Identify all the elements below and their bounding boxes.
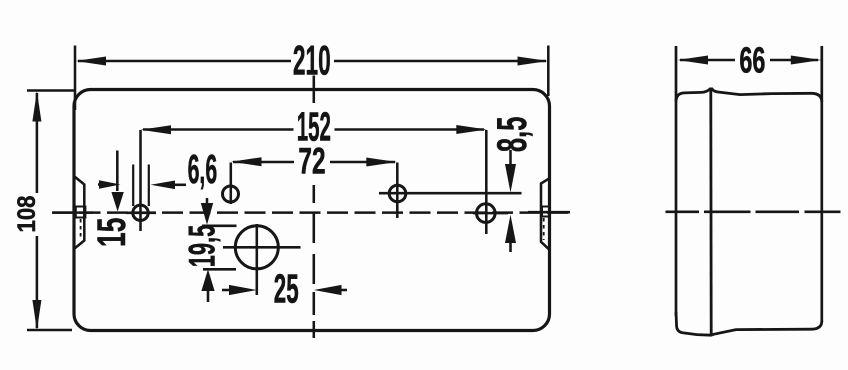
svg-text:108: 108 xyxy=(14,195,41,232)
svg-text:210: 210 xyxy=(293,37,331,84)
svg-text:8,5: 8,5 xyxy=(490,116,536,152)
svg-text:72: 72 xyxy=(298,141,325,182)
svg-text:25: 25 xyxy=(274,265,299,311)
svg-text:19,5: 19,5 xyxy=(183,225,223,268)
svg-text:15: 15 xyxy=(90,218,135,247)
svg-text:6,6: 6,6 xyxy=(188,146,218,192)
svg-text:66: 66 xyxy=(739,41,765,80)
